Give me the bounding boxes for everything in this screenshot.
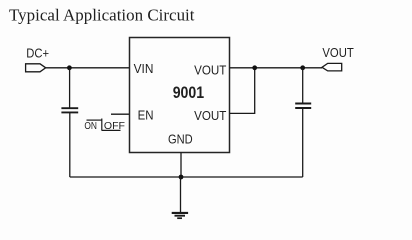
wire VOUT lower feedback [230, 68, 255, 114]
svg-text:OFF: OFF [104, 120, 125, 132]
svg-text:GND: GND [168, 131, 193, 146]
svg-text:ON: ON [84, 120, 97, 132]
switch label ON/OFF [84, 119, 125, 133]
svg-text:VIN: VIN [134, 61, 154, 76]
wire input to VIN [46, 67, 130, 69]
ground symbol [172, 177, 188, 218]
svg-text:Typical Application Circuit: Typical Application Circuit [9, 6, 195, 25]
svg-text:DC+: DC+ [26, 46, 49, 61]
capacitor C2 output [295, 68, 311, 177]
capacitor C1 input [61, 68, 78, 177]
IC U1 [130, 38, 230, 153]
wire ground bus [70, 176, 303, 178]
connector J1 DC+ [26, 64, 46, 72]
pin EN stub [111, 113, 130, 115]
svg-text:VOUT: VOUT [322, 45, 353, 60]
pin GND wire [180, 153, 182, 178]
svg-text:9001: 9001 [173, 83, 204, 102]
node input junction [67, 65, 72, 70]
node ground junction [179, 175, 184, 180]
connector J2 VOUT [322, 63, 342, 71]
svg-text:VOUT: VOUT [194, 108, 226, 123]
wire VOUT top to output [230, 67, 323, 69]
node feedback junction [252, 65, 257, 70]
svg-text:EN: EN [138, 108, 154, 123]
node output junction [300, 65, 305, 70]
svg-text:VOUT: VOUT [194, 63, 226, 78]
